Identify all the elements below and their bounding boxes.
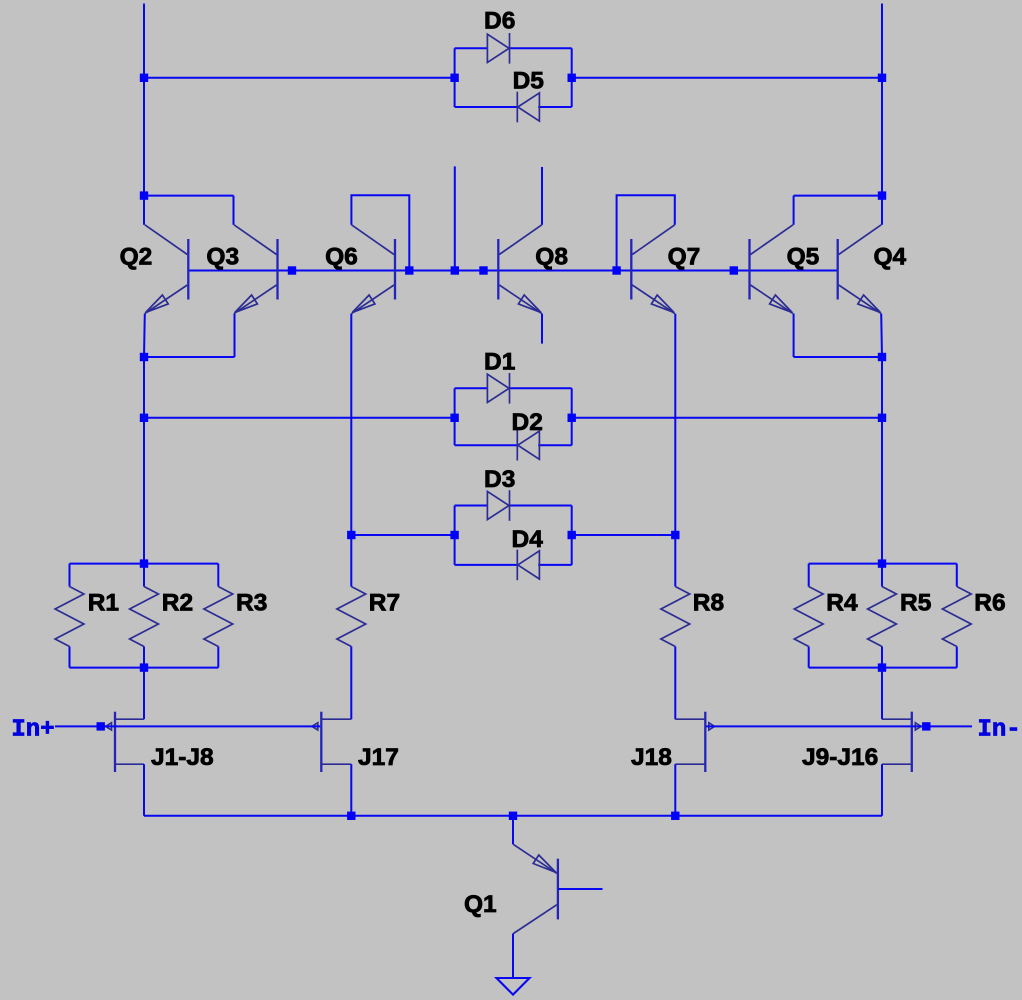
wire [217, 647, 219, 668]
wire [143, 418, 145, 564]
svg-text:D4: D4 [512, 526, 544, 553]
wire [234, 314, 236, 357]
junction [347, 531, 355, 539]
diode D3 [487, 490, 509, 521]
junction [140, 191, 148, 199]
wire [455, 47, 488, 49]
wire [143, 314, 146, 357]
wire [512, 934, 514, 979]
junction [450, 414, 458, 422]
diode D1 [487, 373, 509, 404]
transistor Q8 [498, 225, 542, 314]
wire [510, 387, 572, 389]
wire [455, 564, 518, 566]
svg-text:R7: R7 [369, 589, 400, 616]
ground [497, 978, 530, 995]
wire [144, 815, 882, 817]
svg-text:In-: In- [978, 717, 1021, 744]
wire [571, 48, 573, 107]
junction [878, 191, 886, 199]
wire [143, 764, 145, 816]
wire [143, 196, 145, 225]
wire [189, 270, 837, 272]
wire [144, 356, 235, 358]
junction [878, 559, 886, 567]
wire [455, 387, 488, 389]
junction [479, 266, 487, 274]
wire [881, 196, 883, 225]
resistor R7 [337, 587, 366, 647]
transistor Q4 [838, 225, 882, 314]
svg-text:R6: R6 [974, 589, 1005, 616]
junction [140, 414, 148, 422]
svg-text:Q3: Q3 [206, 244, 239, 271]
junction [568, 414, 576, 422]
svg-text:Q5: Q5 [787, 244, 820, 271]
resistor R3 [204, 587, 233, 647]
wire [808, 564, 810, 587]
svg-text:R4: R4 [826, 589, 858, 616]
resistor R5 [868, 587, 897, 647]
wire [454, 48, 456, 107]
JFET J1-J8 [106, 712, 144, 772]
wire [881, 668, 883, 720]
wire [538, 444, 572, 446]
wire [541, 314, 543, 344]
wire [881, 564, 883, 587]
svg-text:D2: D2 [512, 409, 543, 436]
junction [140, 353, 148, 361]
junction [140, 559, 148, 567]
wire [793, 314, 795, 357]
JFET J18 [675, 712, 714, 772]
wire [794, 195, 882, 197]
svg-text:Q6: Q6 [325, 244, 358, 271]
svg-text:R1: R1 [88, 589, 119, 616]
wire [217, 564, 219, 587]
wire [809, 667, 957, 669]
transistor Q7 [631, 225, 675, 314]
JFET J17 [312, 712, 351, 772]
wire [350, 764, 352, 816]
junction [347, 812, 355, 820]
wire [454, 166, 456, 270]
diode D2 [517, 430, 539, 461]
wire [881, 647, 883, 668]
junction [922, 722, 930, 730]
wire [350, 314, 352, 587]
wire [793, 196, 795, 225]
wire [70, 563, 219, 565]
wire [350, 647, 352, 720]
junction [878, 74, 886, 82]
wire [233, 196, 235, 225]
wire [454, 388, 456, 445]
wire [706, 725, 972, 727]
junction [450, 74, 458, 82]
wire [538, 564, 572, 566]
wire [558, 888, 603, 890]
junction [730, 266, 738, 274]
wire [144, 417, 455, 419]
wire [510, 505, 572, 507]
wire [143, 647, 145, 668]
wire [512, 816, 514, 845]
transistor Q5 [750, 225, 794, 314]
junction [450, 531, 458, 539]
wire [143, 4, 145, 78]
junction [288, 266, 296, 274]
junction [451, 266, 459, 274]
svg-text:Q8: Q8 [535, 244, 568, 271]
wire [454, 506, 456, 565]
svg-text:J1-J8: J1-J8 [151, 744, 214, 771]
svg-text:R3: R3 [236, 589, 267, 616]
wire [808, 647, 810, 668]
wire [510, 47, 572, 49]
junction [97, 722, 105, 730]
wire [881, 418, 883, 564]
junction [612, 266, 620, 274]
wire [617, 195, 675, 270]
svg-text:Q1: Q1 [464, 891, 497, 918]
wire [351, 534, 454, 536]
wire [674, 647, 676, 720]
svg-text:Q2: Q2 [120, 244, 153, 271]
transistor Q1 [513, 844, 558, 933]
wire [70, 667, 219, 669]
diode D5 [517, 92, 539, 123]
wire [143, 357, 145, 418]
wire [881, 764, 883, 816]
transistor Q2 [145, 225, 189, 314]
wire [572, 534, 676, 536]
wire [455, 444, 518, 446]
junction [878, 663, 886, 671]
wire [69, 647, 71, 668]
junction [671, 812, 679, 820]
wire [571, 506, 573, 565]
diode D6 [487, 33, 509, 64]
svg-text:In+: In+ [11, 717, 54, 744]
svg-text:R8: R8 [693, 589, 724, 616]
wire [809, 563, 957, 565]
wire [455, 106, 518, 108]
JFET J9-J16 [882, 712, 921, 772]
wire [572, 417, 882, 419]
transistor Q3 [234, 225, 278, 314]
svg-text:D3: D3 [484, 466, 515, 493]
wire [144, 77, 455, 79]
junction [878, 353, 886, 361]
wire [143, 78, 145, 196]
resistor R4 [794, 587, 823, 647]
wire [881, 78, 883, 196]
wire [881, 4, 883, 78]
junction [405, 266, 413, 274]
wire [881, 357, 883, 418]
wire [541, 167, 543, 225]
resistor R8 [661, 587, 690, 647]
wire [674, 314, 676, 587]
wire [143, 668, 145, 720]
diode D4 [517, 550, 539, 581]
wire [880, 314, 883, 357]
junction [509, 812, 517, 820]
wire [538, 106, 572, 108]
svg-text:Q7: Q7 [668, 244, 701, 271]
wire [794, 356, 882, 358]
wire [674, 764, 676, 816]
svg-text:R2: R2 [162, 589, 193, 616]
junction [140, 663, 148, 671]
wire [956, 647, 958, 668]
wire [351, 195, 409, 270]
junction [140, 74, 148, 82]
transistor Q6 [352, 225, 396, 314]
svg-text:D6: D6 [484, 8, 515, 35]
svg-text:R5: R5 [900, 589, 931, 616]
resistor R1 [55, 587, 84, 647]
junction [671, 531, 679, 539]
wire [956, 564, 958, 587]
wire [144, 195, 234, 197]
wire [69, 564, 71, 587]
junction [568, 74, 576, 82]
wire [143, 564, 145, 587]
junction [878, 414, 886, 422]
svg-text:D5: D5 [513, 67, 544, 94]
wire [571, 388, 573, 445]
wire [55, 725, 320, 727]
svg-text:D1: D1 [484, 349, 515, 376]
svg-text:J17: J17 [358, 744, 399, 771]
junction [568, 531, 576, 539]
svg-text:Q4: Q4 [874, 244, 907, 271]
resistor R2 [130, 587, 159, 647]
wire [572, 77, 882, 79]
resistor R6 [942, 587, 971, 647]
svg-text:J18: J18 [631, 744, 672, 771]
wire [455, 505, 488, 507]
svg-text:J9-J16: J9-J16 [802, 744, 878, 771]
